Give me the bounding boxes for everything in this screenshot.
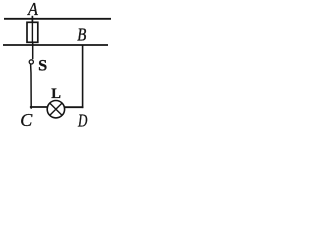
- fuse F1 body: [27, 22, 38, 42]
- wire B down to D corner: [82, 45, 84, 108]
- fuse F1 element wire: [31, 22, 33, 42]
- wire bottom left C segment: [30, 106, 48, 108]
- svg-text:L: L: [51, 86, 61, 102]
- svg-text:D: D: [77, 111, 87, 131]
- wire bottom right D segment: [64, 106, 83, 108]
- lamp L circle: [47, 101, 64, 118]
- lamp L cross stroke 1: [50, 103, 62, 115]
- svg-text:S: S: [38, 56, 47, 75]
- switch S pivot circle: [29, 60, 33, 64]
- wire top supply rail: [4, 18, 111, 20]
- node A junction tick: [31, 16, 33, 23]
- lamp L cross stroke 2: [50, 103, 62, 115]
- switch S lever: [30, 64, 33, 109]
- wire second supply rail: [3, 44, 108, 46]
- svg-text:C: C: [20, 110, 33, 130]
- wire fuse to rail to switch: [32, 42, 34, 59]
- svg-text:A: A: [27, 0, 39, 19]
- svg-text:B: B: [77, 25, 86, 45]
